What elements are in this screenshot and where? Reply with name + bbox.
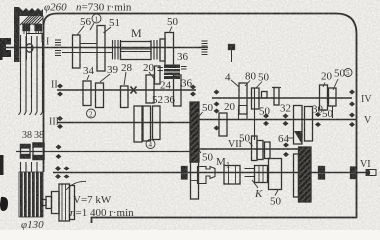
shaft IV [212,97,352,99]
sliding gear 2 on shaft III [143,106,151,141]
gear 56 on shaft I [73,35,81,68]
spindle step sleeve M1 [198,167,216,184]
shaft V right bearing diamonds [349,113,355,128]
tall gear right on shaft II [174,75,182,106]
shaft IV right bearing diamonds [349,90,355,107]
gear 20 on shaft II [155,66,161,84]
gear mate right [305,107,313,142]
leader 50 [170,27,173,33]
38-38 shaft bearing diamonds [56,145,62,160]
label 28 [121,62,133,74]
shaft V label [364,115,372,126]
spindle bearing blocks [182,167,188,172]
motor disc2 [70,186,75,220]
gear 38 right [33,143,44,160]
label 20 [143,62,155,74]
sleeve on shaft I [62,44,113,53]
housing top/left outline [44,14,357,224]
label phi130 [21,219,44,231]
spindle thin section [245,169,255,177]
shaft II [57,89,196,91]
sliding gear 1 on shaft III [134,106,142,142]
gear sleeve above V [239,106,248,120]
shaft VII label [228,139,242,150]
circled 1 [92,14,101,24]
sliding gear 3 on shaft III [153,106,161,140]
label 4 [225,72,231,84]
label 50 under 30 [322,108,334,120]
label 50(5) [334,68,346,80]
diamonds at 32 [283,114,289,127]
gear 50 on spindle [269,159,282,190]
shaft IV label [361,94,372,105]
shaft I label [46,37,49,48]
gear 39 mate on shaft II [96,83,104,108]
shifter T on shaft IV [272,87,281,89]
motor disc [59,184,70,221]
shaft III [57,122,190,124]
vertical rail [254,88,256,140]
shaft VII [198,148,305,150]
big spindle gear flange [294,154,299,197]
circled 2 [87,109,96,119]
label 51 [109,17,120,29]
label 50 bottom of big gear [202,152,214,164]
spindle block 2 [224,166,240,185]
motor pulley phi130 [19,172,43,217]
circled 4 [146,140,155,150]
gear on shaft V right [315,112,321,127]
label M1 [216,156,230,170]
gear 20 on shaft V [219,113,227,136]
clutch M body [121,42,152,60]
label 24 [160,80,172,92]
label V=7kW [73,194,112,206]
small key on shaft IV [262,92,268,99]
clutch end plate [160,39,165,61]
bearing tick marks [24,31,41,34]
leader 51 [104,27,112,33]
clutch M discs right [151,40,160,60]
shaft III label [49,117,59,128]
wall hatched block top-left [14,7,43,62]
shaft V left bearing diamonds [214,109,220,131]
pulley housing box [26,33,44,35]
label 50 [258,72,270,84]
leaders 34 39 [87,75,89,80]
gear 28 mate on shaft II [121,86,129,108]
label 64 [278,133,290,145]
label 50 on VII [239,133,251,145]
gear c on shaft VII [265,142,271,159]
gear 50 on shaft I [165,33,174,67]
label 80 [245,71,257,83]
big double gear 50 column [190,102,199,162]
gear 80 on shaft IV [239,83,247,114]
label K [254,188,263,200]
label 20 on V [224,101,236,113]
belt lines to motor [19,35,43,172]
motor cone step3 [52,192,60,214]
wall diagonal hatch [20,15,43,25]
shaft I bearing marks [55,40,61,56]
shaft III left bearing diamonds [57,116,63,129]
shaft VI label [360,159,371,170]
clutch K block [255,166,268,183]
text phi260 [44,2,67,14]
shaft I [2,47,208,49]
leader 56 [78,26,85,35]
shaft IV left bearing diamonds [214,90,220,107]
label 52 36 [152,94,176,106]
label 39 [107,64,119,76]
label 20 right [321,71,333,83]
label 50 under gear [270,196,282,208]
bearing mark right of hatch gear [181,67,187,70]
motor cone tip [41,200,46,206]
scan edge artifact top-left [0,47,3,60]
hatched double gear on shaft II [158,65,181,80]
motor leader [66,181,86,190]
pulley on shaft I (left, outside wall) [0,38,11,57]
gear 64 between V and VII [294,106,303,145]
coupling circle on shaft I [26,44,33,52]
label M [131,26,142,40]
label 30 [312,104,324,116]
scan edge artifact mid-left [0,155,4,175]
motor cone step2 [46,197,52,209]
label 36 upper [177,51,189,63]
diamonds mid V [263,114,269,127]
gear b on shaft VII [257,141,263,160]
shaft II left bearing diamonds [57,84,63,97]
gear 50 on shaft IV [252,88,260,109]
scan edge artifact bottom-left [0,197,8,211]
shaft VI spindle [53,172,366,174]
shaft I right bearing [202,41,208,55]
label 50 top of big gear [202,102,214,114]
gear 34 mate on shaft II [83,81,91,106]
gear a on shaft VII [252,136,258,161]
tall gear on shaft II [146,75,154,103]
gear 38 left [21,145,31,159]
bearing block right [35,25,42,31]
diamonds right of VII gears [283,143,289,158]
shaft II right bearing diamonds [190,85,196,97]
clutch M discs left [113,40,121,60]
bearing block left [23,25,30,31]
big spindle gear [299,147,312,202]
38-38 shaft [16,151,190,153]
shaft II label [51,80,58,91]
X mark on shaft II [131,87,137,94]
label n=1400 [70,207,134,219]
label 32 [280,103,291,115]
gear 51 on shaft I [97,26,105,72]
shifter stub a [229,45,235,50]
label 50 mid V [259,106,271,118]
label 34 [83,65,95,77]
shaft V line (right of big gear) [199,119,356,121]
spindle left bearing diamonds [55,166,61,179]
label 50 left of shaft V [203,104,215,116]
label 36 lower [181,78,193,90]
spindle nose [366,170,376,176]
text n=730 r/min [76,2,132,14]
label 56 [80,16,92,28]
gear 50-5 on shaft IV right [329,88,337,106]
label 50 [167,16,179,28]
gear 20 on shaft IV right [320,85,328,110]
spindle right bearing [319,167,325,172]
label 38 38 [22,130,44,141]
